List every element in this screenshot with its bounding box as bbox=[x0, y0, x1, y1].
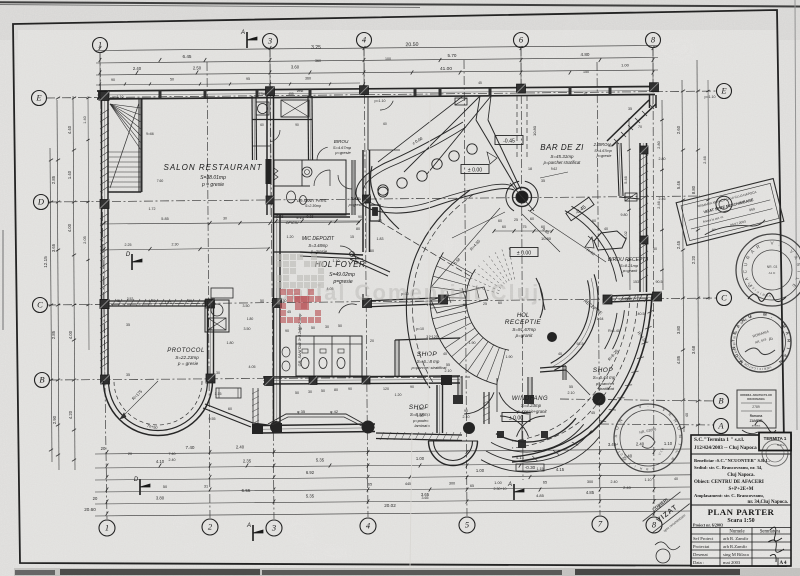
svg-text:3.52: 3.52 bbox=[127, 297, 134, 301]
svg-text:35: 35 bbox=[583, 92, 587, 96]
svg-text:7.60: 7.60 bbox=[157, 179, 164, 183]
svg-text:35: 35 bbox=[608, 144, 612, 148]
svg-text:45: 45 bbox=[478, 81, 482, 85]
svg-text:9.62: 9.62 bbox=[551, 167, 557, 171]
svg-text:1.80: 1.80 bbox=[247, 317, 254, 321]
svg-text:3.50: 3.50 bbox=[243, 304, 250, 308]
svg-text:9=66: 9=66 bbox=[146, 132, 154, 136]
